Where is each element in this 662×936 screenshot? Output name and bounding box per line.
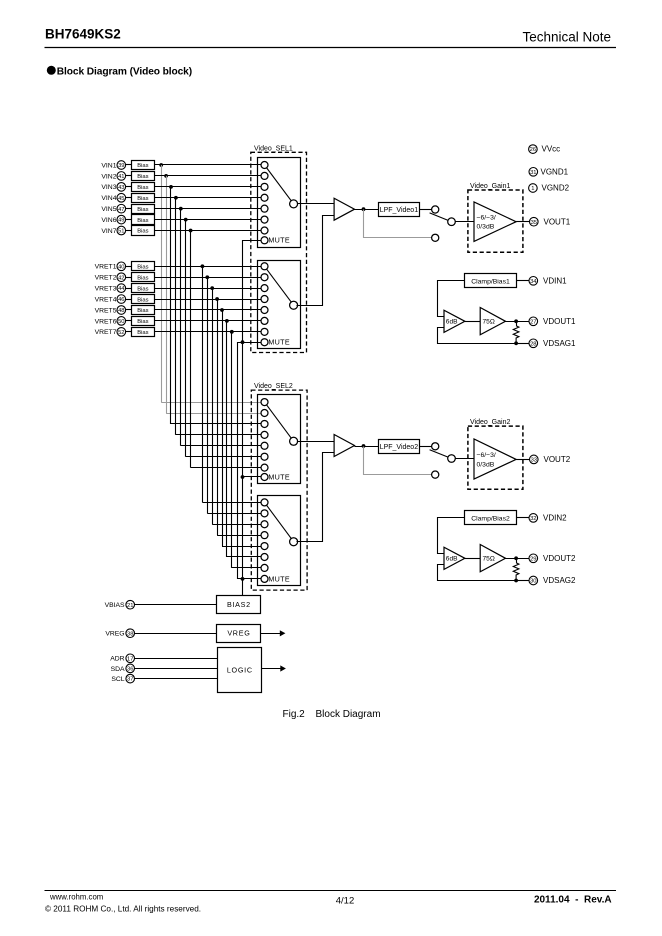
svg-text:Bias: Bias <box>137 163 148 169</box>
svg-text:VRET3: VRET3 <box>95 286 117 293</box>
wire VRET3 horizontal into SEL2 <box>212 524 261 526</box>
input contact SEL2 VRET7 <box>261 564 268 571</box>
svg-text:−6/−3/: −6/−3/ <box>477 214 496 221</box>
wire VIN2 vertical to SEL2 <box>166 176 168 413</box>
pin VIN4 (45) <box>101 193 125 202</box>
wire VRET4 pin to bias <box>126 299 132 301</box>
svg-text:29: 29 <box>530 556 536 562</box>
op-amp gain2 <box>474 439 516 479</box>
mute contact SEL1 lower <box>261 339 268 346</box>
svg-text:44: 44 <box>118 286 125 292</box>
figure caption <box>283 709 381 720</box>
op-amp 6dB (2) <box>444 547 465 569</box>
junction node VRET4 <box>215 297 219 301</box>
op-amp 6dB (1) <box>444 310 465 332</box>
svg-text:51: 51 <box>118 229 124 235</box>
input contact SEL1 VIN5 <box>261 205 268 212</box>
pin VIN3 (43) <box>101 183 125 192</box>
contact LPF2 output <box>432 443 439 450</box>
pin ADR (17) <box>110 654 134 663</box>
svg-text:Bias: Bias <box>137 196 148 202</box>
wire VRET5 pin to bias <box>126 309 132 311</box>
wire SEL2 MUTE1 branch <box>243 476 262 478</box>
svg-text:43: 43 <box>118 185 124 191</box>
svg-text:48: 48 <box>118 308 124 314</box>
switch arm SEL1 upper <box>265 165 294 204</box>
svg-text:Block Diagram (Video block): Block Diagram (Video block) <box>57 67 192 78</box>
input contact SEL2 VRET6 <box>261 554 268 561</box>
wire Clamp/Bias2 to VDIN2 <box>517 517 530 519</box>
svg-text:MUTE: MUTE <box>268 574 290 583</box>
wire VRET7 horizontal into SEL2 <box>232 567 261 569</box>
junction node VRET1 <box>201 264 205 268</box>
wire VIN1 vertical to SEL2 <box>161 165 163 402</box>
input contact SEL1 VIN3 <box>261 183 268 190</box>
wire VIN1 pin to bias <box>126 164 132 166</box>
pin VGND2 (1) <box>529 184 570 193</box>
wire VIN7 bias to SEL1 <box>154 230 261 232</box>
wire SCL to LOGIC <box>135 678 218 680</box>
wire VIN5 bias to SEL1 <box>154 208 261 210</box>
node LPF2 bypass junction <box>362 444 366 448</box>
wire U1 out to LPF_Video1 <box>355 209 379 211</box>
svg-text:50: 50 <box>118 319 124 325</box>
pin VREG (38) <box>105 629 134 638</box>
wire LPF2 bypass (grey) <box>364 447 432 475</box>
footer rule <box>45 890 617 892</box>
Bias block for VRET5 <box>132 306 155 315</box>
svg-text:VDIN2: VDIN2 <box>543 514 567 523</box>
svg-text:21: 21 <box>127 603 133 609</box>
svg-text:SDA: SDA <box>111 666 125 673</box>
svg-text:VDIN1: VDIN1 <box>543 276 567 285</box>
Clamp/Bias1 block <box>465 274 517 288</box>
svg-text:−6/−3/: −6/−3/ <box>477 452 496 459</box>
input contact SEL2 VIN1 <box>261 399 268 406</box>
svg-text:75Ω: 75Ω <box>483 556 495 563</box>
wire 6dB to 75ohm amp <box>465 321 480 323</box>
svg-text:0/3dB: 0/3dB <box>477 461 495 468</box>
wire VRET5 horizontal into SEL2 <box>222 546 261 548</box>
wire ADR to LOGIC <box>135 658 218 660</box>
input contact SEL2 VIN3 <box>261 420 268 427</box>
wire SEL1 upper out to amp U1 <box>297 203 334 205</box>
wire VREG pin to VREG block <box>135 633 218 635</box>
wire VRET1 bias to SEL1 <box>154 266 261 268</box>
LOGIC block <box>218 648 262 693</box>
wire VRET4 vertical to SEL2 <box>217 299 219 535</box>
input contact SEL1 VRET7 <box>261 328 268 335</box>
output contact SEL2 upper <box>290 437 298 445</box>
VREG block <box>217 625 261 643</box>
contact LPF1 output <box>432 206 439 213</box>
wire to VDSAG2 pin <box>516 580 529 582</box>
input contact SEL2 VIN4 <box>261 431 268 438</box>
svg-text:41: 41 <box>118 174 124 180</box>
wire SEL2 lower out to amp U2 <box>297 453 335 542</box>
pin SCL (37) <box>111 674 134 683</box>
svg-text:Bias: Bias <box>137 174 148 180</box>
wire VIN4 horizontal into SEL2 <box>176 434 261 436</box>
wire MUTE bus from SEL1 MUTE1 down to BIAS2 <box>243 241 262 596</box>
svg-text:VOUT2: VOUT2 <box>544 455 571 464</box>
junction node VRET7 <box>230 330 234 334</box>
input contact SEL2 VRET3 <box>261 521 268 528</box>
wire VIN4 vertical to SEL2 <box>175 198 177 435</box>
svg-text:32: 32 <box>530 516 536 522</box>
input contact SEL2 VIN5 <box>261 442 268 449</box>
svg-text:VREG: VREG <box>105 631 124 638</box>
Bias block for VIN6 <box>132 215 155 225</box>
svg-text:Bias: Bias <box>137 308 148 314</box>
svg-text:28: 28 <box>530 341 536 347</box>
svg-text:SCL: SCL <box>111 676 124 683</box>
svg-text:VGND1: VGND1 <box>541 167 569 176</box>
svg-text:75Ω: 75Ω <box>483 319 495 326</box>
input contact SEL2 VIN2 <box>261 410 268 417</box>
junction MUTE bus at SEL2 MUTE2 <box>241 577 245 581</box>
svg-text:1: 1 <box>531 186 534 192</box>
wire 75ohm out to VDOUT2 <box>506 558 530 560</box>
pin VRET5 (48) <box>95 306 126 315</box>
node LPF1 bypass junction <box>362 207 366 211</box>
wire VRET6 vertical to SEL2 <box>226 321 228 557</box>
switch arm SEL2 lower <box>265 502 294 541</box>
svg-text:LPF_Video2: LPF_Video2 <box>380 444 419 451</box>
junction node VIN2 <box>164 174 168 178</box>
wire VIN6 pin to bias <box>126 219 132 221</box>
svg-text:Video_Gain2: Video_Gain2 <box>470 419 510 426</box>
wire VRET4 bias to SEL1 <box>154 299 261 301</box>
svg-text:Bias: Bias <box>137 319 148 325</box>
wire VIN1 bias to SEL1 <box>154 164 261 166</box>
wire VRET2 pin to bias <box>126 277 132 279</box>
svg-text:Bias: Bias <box>137 286 148 292</box>
svg-text:34: 34 <box>530 279 537 285</box>
input contact SEL1 VRET5 <box>261 306 268 313</box>
svg-text:VIN5: VIN5 <box>101 206 116 213</box>
mute contact SEL2 lower <box>261 575 268 582</box>
switch arm SEL2 upper <box>265 402 294 441</box>
wire 75ohm out to VDOUT1 <box>506 321 530 323</box>
svg-text:33: 33 <box>531 458 537 464</box>
wire VRET6 bias to SEL1 <box>154 320 261 322</box>
wire VRET5 bias to SEL1 <box>154 309 261 311</box>
switch box SEL1 lower (VRET select) <box>258 261 301 349</box>
Bias block for VIN7 <box>132 226 155 236</box>
op-amp U1 (video mixer 1) <box>334 198 354 220</box>
svg-text:2011.04 - Rev.A: 2011.04 - Rev.A <box>534 895 612 906</box>
pin VDIN1 (34) <box>529 276 567 285</box>
node VDSAG2 junction <box>514 579 518 583</box>
svg-text:VIN6: VIN6 <box>101 217 116 224</box>
input contact SEL1 VRET3 <box>261 285 268 292</box>
svg-text:37: 37 <box>127 677 133 683</box>
contact LPF1 pole <box>448 218 456 226</box>
input contact SEL1 VIN4 <box>261 194 268 201</box>
svg-text:VIN3: VIN3 <box>101 184 116 191</box>
svg-text:VRET2: VRET2 <box>95 275 117 282</box>
wire LPF1 out to switch <box>420 209 432 211</box>
pin VRET6 (50) <box>95 317 126 326</box>
switch arm LPF2 select <box>430 450 452 459</box>
svg-text:MUTE: MUTE <box>268 236 290 245</box>
pin VRET1 (40) <box>95 262 126 271</box>
svg-text:VRET6: VRET6 <box>95 318 117 325</box>
wire VRET7 vertical to SEL2 <box>231 332 233 568</box>
pin VRET7 (52) <box>95 328 126 337</box>
junction node VIN1 <box>159 163 163 167</box>
wire VRET2 bias to SEL1 <box>154 277 261 279</box>
wire SEL2 upper out to amp U2 <box>297 441 334 443</box>
wire VIN6 vertical to SEL2 <box>185 220 187 457</box>
input contact SEL2 VIN7 <box>261 464 268 471</box>
svg-text:VDSAG1: VDSAG1 <box>543 339 576 348</box>
svg-text:27: 27 <box>530 319 536 325</box>
switch arm LPF1 select <box>430 213 452 222</box>
junction node VRET3 <box>210 286 214 290</box>
svg-text:47: 47 <box>118 207 124 213</box>
svg-text:Video_SEL2: Video_SEL2 <box>254 383 293 390</box>
wire VIN2 pin to bias <box>126 175 132 177</box>
junction node VIN5 <box>179 207 183 211</box>
svg-text:LPF_Video1: LPF_Video1 <box>380 207 419 214</box>
input contact SEL1 VRET4 <box>261 296 268 303</box>
input contact SEL2 VRET5 <box>261 543 268 550</box>
svg-text:49: 49 <box>118 218 124 224</box>
svg-text:VIN4: VIN4 <box>101 195 116 202</box>
svg-text:42: 42 <box>118 275 124 281</box>
svg-text:40: 40 <box>118 264 124 270</box>
wire VRET6 horizontal into SEL2 <box>227 556 261 558</box>
wire SEL1 lower out to amp U1 <box>297 216 335 306</box>
junction node VRET2 <box>205 275 209 279</box>
pin VIN1 (39) <box>101 161 125 170</box>
svg-text:38: 38 <box>127 631 133 637</box>
input contact SEL1 VIN2 <box>261 172 268 179</box>
input contact SEL2 VRET1 <box>261 499 268 506</box>
op-amp gain1 <box>474 202 516 241</box>
wire VIN6 bias to SEL1 <box>154 219 261 221</box>
wire VIN4 bias to SEL1 <box>154 197 261 199</box>
svg-text:Video_Gain1: Video_Gain1 <box>470 183 510 190</box>
Bias block for VRET4 <box>132 295 155 304</box>
svg-text:Bias: Bias <box>137 265 148 271</box>
svg-text:0/3dB: 0/3dB <box>477 224 495 231</box>
wire VRET6 pin to bias <box>126 320 132 322</box>
input contact SEL1 VIN7 <box>261 227 268 234</box>
wire VRET4 horizontal into SEL2 <box>217 535 261 537</box>
wire VRET3 pin to bias <box>126 288 132 290</box>
junction MUTE bus at SEL2 MUTE1 <box>241 475 245 479</box>
wire VIN3 horizontal into SEL2 <box>171 423 261 425</box>
svg-text:© 2011 ROHM Co., Ltd. All righ: © 2011 ROHM Co., Ltd. All rights reserve… <box>45 904 201 913</box>
value label gain1 <box>477 214 496 230</box>
wire pole to Video_Gain2 <box>455 458 474 460</box>
wire VRET5 vertical to SEL2 <box>222 310 224 546</box>
svg-text:www.rohm.com: www.rohm.com <box>49 893 103 902</box>
input contact SEL1 VIN6 <box>261 216 268 223</box>
pin VDIN2 (32) <box>529 514 567 523</box>
svg-text:BIAS2: BIAS2 <box>227 600 251 609</box>
pin VRET4 (46) <box>95 295 126 304</box>
svg-text:MUTE: MUTE <box>268 338 290 347</box>
wire SEL1 MUTE2 branch <box>238 343 262 579</box>
wire Clamp/Bias1 to VDIN1 <box>517 280 530 282</box>
svg-text:Bias: Bias <box>137 275 148 281</box>
wire VIN5 horizontal into SEL2 <box>181 445 261 447</box>
pin VDSAG2 (30) <box>529 576 576 585</box>
wire gain1 out to VOUT1 <box>516 221 529 223</box>
svg-text:6dB: 6dB <box>446 556 458 563</box>
svg-text:VIN2: VIN2 <box>101 173 116 180</box>
pin VDSAG1 (28) <box>529 339 576 348</box>
svg-text:BH7649KS2: BH7649KS2 <box>45 27 121 42</box>
svg-text:VGND2: VGND2 <box>542 184 570 193</box>
svg-text:VDOUT1: VDOUT1 <box>543 317 576 326</box>
wire VIN3 pin to bias <box>126 186 132 188</box>
svg-text:39: 39 <box>118 163 124 169</box>
input contact SEL1 VIN1 <box>261 162 268 169</box>
op-amp U2 (video mixer 2) <box>334 435 354 457</box>
svg-text:VRET5: VRET5 <box>95 307 117 314</box>
Bias block for VRET7 <box>132 328 155 337</box>
wire VDSAG1 feedback to 6dB amp <box>438 328 517 344</box>
pin VRET2 (42) <box>95 273 126 282</box>
wire VBIAS to BIAS2 <box>135 604 218 606</box>
svg-text:VIN7: VIN7 <box>101 228 116 235</box>
svg-text:Bias: Bias <box>137 229 148 235</box>
svg-text:30: 30 <box>530 579 536 585</box>
header rule <box>45 47 617 49</box>
wire VRET1 horizontal into SEL2 <box>202 502 261 504</box>
wire VIN4 pin to bias <box>126 197 132 199</box>
pin VVcc (26) <box>529 145 561 154</box>
pin VBIAS (21) <box>105 600 135 609</box>
svg-text:Fig.2: Fig.2 <box>283 709 306 720</box>
svg-text:Clamp/Bias1: Clamp/Bias1 <box>471 278 510 285</box>
BIAS2 block <box>217 596 261 614</box>
pin VIN2 (41) <box>101 172 125 181</box>
svg-text:26: 26 <box>530 147 536 153</box>
pin VDOUT1 (27) <box>529 317 576 326</box>
svg-text:45: 45 <box>118 196 124 202</box>
wire to VDSAG1 pin <box>516 343 529 345</box>
output contact SEL2 lower <box>290 538 298 546</box>
svg-text:Bias: Bias <box>137 218 148 224</box>
svg-text:Bias: Bias <box>137 207 148 213</box>
svg-text:Technical Note: Technical Note <box>522 30 611 45</box>
wire VRET2 vertical to SEL2 <box>207 277 209 513</box>
wire VRET3 vertical to SEL2 <box>212 288 214 524</box>
junction MUTE bus x SEL1 MUTE2 <box>241 340 245 344</box>
wire VIN3 vertical to SEL2 <box>170 187 172 424</box>
resistor R2 (sag) <box>513 558 519 580</box>
Bias block for VIN5 <box>132 205 155 214</box>
Bias block for VIN4 <box>132 194 155 203</box>
mute contact SEL2 upper <box>261 474 268 481</box>
switch box SEL1 upper (VIN select) <box>258 158 301 248</box>
wire VIN5 vertical to SEL2 <box>180 209 182 446</box>
svg-text:ADR: ADR <box>110 656 124 663</box>
wire VIN1 horizontal into SEL2 <box>161 402 261 404</box>
wire U2 out to LPF_Video2 <box>355 446 379 448</box>
value label gain2 <box>477 452 496 468</box>
output contact SEL1 upper <box>290 200 298 208</box>
wire 6dB to 75ohm amp (2) <box>465 558 480 560</box>
switch box SEL2 lower (VRET select) <box>258 496 301 586</box>
svg-text:VVcc: VVcc <box>542 145 561 154</box>
svg-text:VRET7: VRET7 <box>95 329 117 336</box>
switch arm SEL1 lower <box>265 266 294 305</box>
wire VRET1 vertical to SEL2 <box>202 266 204 502</box>
node VDOUT1 junction <box>514 319 518 323</box>
wire VREG output arrow <box>261 630 286 636</box>
wire Clamp/Bias2 to 6dB amp <box>438 518 465 554</box>
wire pole to Video_Gain1 <box>455 221 474 223</box>
pin VIN7 (51) <box>101 226 125 235</box>
wire VRET7 bias to SEL1 <box>154 331 261 333</box>
wire VIN5 pin to bias <box>126 208 132 210</box>
pin VOUT2 (33) <box>530 455 571 464</box>
input contact SEL2 VRET4 <box>261 532 268 539</box>
Bias block for VIN1 <box>132 161 155 170</box>
svg-text:MUTE: MUTE <box>268 472 290 481</box>
svg-text:46: 46 <box>118 297 124 303</box>
wire VIN3 bias to SEL1 <box>154 186 261 188</box>
svg-text:Video_SEL1: Video_SEL1 <box>254 145 293 152</box>
svg-text:31: 31 <box>530 170 536 176</box>
contact LPF1 bypass <box>432 234 439 241</box>
pin VDOUT2 (29) <box>529 554 576 563</box>
wire SDA to LOGIC <box>135 668 218 670</box>
svg-text:VDOUT2: VDOUT2 <box>543 554 576 563</box>
contact LPF2 pole <box>448 455 456 463</box>
Bias block for VRET1 <box>132 262 155 271</box>
svg-text:17: 17 <box>127 656 133 662</box>
Clamp/Bias2 block <box>465 511 517 525</box>
wire VIN6 horizontal into SEL2 <box>186 456 262 458</box>
mute contact SEL1 upper <box>261 237 268 244</box>
resistor R1 (sag) <box>513 321 519 343</box>
wire VRET3 bias to SEL1 <box>154 288 261 290</box>
Bias block for VRET3 <box>132 284 155 293</box>
wire VRET1 pin to bias <box>126 266 132 268</box>
input contact SEL1 VRET1 <box>261 263 268 270</box>
switch box SEL2 upper (VIN select) <box>258 395 301 484</box>
svg-text:VDSAG2: VDSAG2 <box>543 576 576 585</box>
junction node VRET5 <box>220 308 224 312</box>
svg-text:Block Diagram: Block Diagram <box>316 709 381 720</box>
Bias block for VIN2 <box>132 172 155 181</box>
Bias block for VRET2 <box>132 273 155 282</box>
wire LPF1 bypass (grey) <box>364 210 432 238</box>
junction node VIN7 <box>189 229 193 233</box>
node VDOUT2 junction <box>514 556 518 560</box>
LPF_Video2 block <box>379 440 420 454</box>
wire VDSAG2 feedback to 6dB amp <box>438 565 517 581</box>
wire gain2 out to VOUT2 <box>516 459 529 461</box>
junction node VIN3 <box>169 185 173 189</box>
contact LPF2 bypass <box>432 471 439 478</box>
wire VRET7 pin to bias <box>126 331 132 333</box>
pin VIN6 (49) <box>101 215 125 224</box>
pin VRET3 (44) <box>95 284 126 293</box>
Bias block for VIN3 <box>132 183 155 192</box>
pin SDA (36) <box>111 664 135 673</box>
junction node VIN4 <box>174 196 178 200</box>
svg-text:36: 36 <box>127 667 133 673</box>
